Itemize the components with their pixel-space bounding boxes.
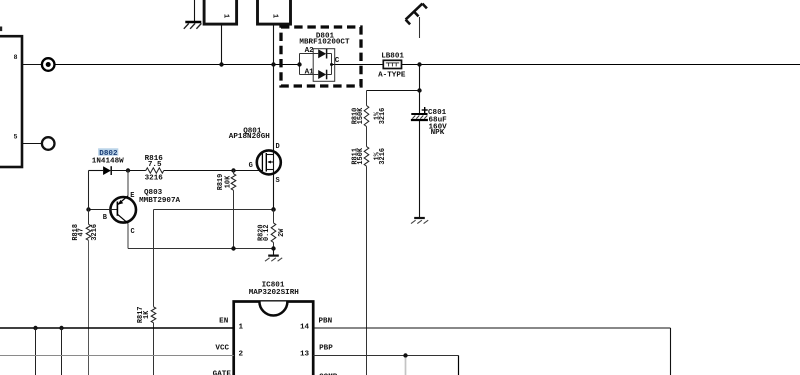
junction R820 bottom xyxy=(271,246,275,250)
wire gate node to Q801 gate xyxy=(234,170,263,172)
junction base node xyxy=(86,207,90,211)
left connector block (cut off at left edge) xyxy=(0,36,22,167)
gray stub below PBP branch xyxy=(405,358,407,375)
svg-text:D: D xyxy=(276,143,280,151)
svg-text:EN: EN xyxy=(219,318,229,326)
ground under C801 xyxy=(414,217,425,219)
cathode join xyxy=(331,54,333,75)
svg-text:PBP: PBP xyxy=(319,345,333,353)
wire box1 to bus xyxy=(221,24,223,64)
svg-text:1: 1 xyxy=(221,14,229,19)
svg-text:A1: A1 xyxy=(305,68,315,76)
svg-text:1: 1 xyxy=(239,323,244,331)
node A1/A2 junction on bus xyxy=(297,62,301,66)
connector pad pin 8 (ring with dot) xyxy=(42,58,55,71)
junction PBP branch xyxy=(403,353,407,357)
junction D802/R816/Q803e xyxy=(126,168,130,172)
collector bottom wire xyxy=(128,248,274,250)
svg-text:NPK: NPK xyxy=(431,129,445,137)
junction source/R820 xyxy=(271,207,275,211)
junction LB801 output xyxy=(417,62,421,66)
svg-text:1N4148W: 1N4148W xyxy=(92,157,124,165)
svg-text:VCC: VCC xyxy=(215,345,229,353)
Q803 base wire xyxy=(89,209,118,211)
wire bus to C801 xyxy=(419,91,421,114)
svg-text:MMBT2907A: MMBT2907A xyxy=(139,197,180,205)
junction Q801 source node xyxy=(271,207,275,211)
main bus wire (right section after D801) xyxy=(332,64,800,66)
connector pad pin 5 (open ring) xyxy=(42,137,55,150)
svg-text:AP18N20GH: AP18N20GH xyxy=(229,133,270,141)
svg-text:8: 8 xyxy=(14,54,18,61)
svg-text:150K: 150K xyxy=(357,147,365,164)
wire box2 down to Q801 drain (through bus) xyxy=(273,24,275,209)
junction branch xyxy=(417,88,421,92)
Q803 collector xyxy=(118,215,128,224)
ground (top left) xyxy=(194,0,196,21)
svg-text:5: 5 xyxy=(14,133,18,140)
svg-text:3216: 3216 xyxy=(91,224,99,241)
resistor R818 xyxy=(88,210,90,225)
Q803 emitter xyxy=(127,171,129,196)
wire C801 to ground xyxy=(419,121,421,217)
svg-text:3216: 3216 xyxy=(379,108,387,125)
PBP net wire xyxy=(313,355,458,357)
svg-text:1K: 1K xyxy=(143,310,151,319)
junction EN branch 2 xyxy=(59,326,63,330)
svg-text:3216: 3216 xyxy=(379,148,387,165)
svg-text:A-TYPE: A-TYPE xyxy=(378,71,406,79)
svg-text:A2: A2 xyxy=(305,47,315,55)
op-amp IC801 body xyxy=(234,302,314,375)
junction R819 bottom xyxy=(231,246,235,250)
resistor R820 xyxy=(273,210,275,223)
svg-text:C: C xyxy=(335,57,340,65)
VCC net wire (gray) xyxy=(0,355,234,357)
svg-text:150K: 150K xyxy=(357,107,365,124)
junction EN branch 1 xyxy=(33,326,37,330)
transistor Q801 (N-MOSFET) xyxy=(257,150,281,174)
wire pin 8 to connector xyxy=(22,64,42,66)
svg-text:14: 14 xyxy=(300,323,310,331)
wire stub from rotated ground xyxy=(419,17,421,38)
diode D801a (top) xyxy=(318,49,326,58)
svg-text:GATE: GATE xyxy=(213,370,232,375)
D801 dashed package box xyxy=(281,27,361,86)
svg-text:G: G xyxy=(249,162,253,170)
wire to ground xyxy=(273,249,275,256)
LB801 bead body xyxy=(383,60,401,68)
resistor R819 xyxy=(233,171,235,174)
resistor R811 xyxy=(364,147,369,167)
EN net wire xyxy=(0,327,234,329)
source/R820 mid wire xyxy=(154,209,274,211)
top connector box 1 xyxy=(204,0,237,24)
diode D801b (bottom) xyxy=(318,70,326,79)
wire diode to junction xyxy=(111,170,146,172)
top connector box 2 xyxy=(258,0,291,24)
svg-text:PBN: PBN xyxy=(319,318,333,326)
R810 divider chain vertical wire xyxy=(366,91,368,106)
svg-text:C: C xyxy=(131,228,135,236)
svg-text:MBRF10200CT: MBRF10200CT xyxy=(299,38,350,46)
svg-text:2W: 2W xyxy=(278,228,286,237)
C801 dielectric hatch xyxy=(412,116,415,119)
wire bus down to C801/R810 branch xyxy=(419,65,421,91)
resistor R817 xyxy=(151,307,156,323)
svg-text:E: E xyxy=(130,192,134,200)
ground (top right, rotated 45deg) xyxy=(406,4,423,20)
resistor R810 xyxy=(364,106,369,127)
junction box1/bus xyxy=(219,62,223,66)
main bus wire (left section, y=64) xyxy=(55,64,299,66)
D801 inner body box xyxy=(313,49,335,82)
diode D802 xyxy=(103,166,111,175)
wire mid corner down to R817 xyxy=(153,210,155,307)
D802 highlighted label xyxy=(98,148,118,155)
capacitor C801 plus sign xyxy=(422,109,428,111)
D801 anode bracket xyxy=(299,54,301,75)
capacitor C801 plates xyxy=(411,113,427,115)
svg-text:0.12: 0.12 xyxy=(263,224,271,241)
transistor Q803 (PNP) xyxy=(110,197,136,223)
svg-text:S: S xyxy=(276,177,280,185)
svg-text:Q803: Q803 xyxy=(144,189,163,197)
wire diode corner down to base node xyxy=(88,171,90,210)
junction gate node xyxy=(231,168,235,172)
svg-text:3216: 3216 xyxy=(145,175,164,183)
svg-text:47: 47 xyxy=(77,228,85,236)
svg-text:1: 1 xyxy=(271,14,279,19)
wire corner to diode D802 xyxy=(89,170,104,172)
ground under R820 xyxy=(268,255,279,257)
svg-text:7.5: 7.5 xyxy=(148,161,162,169)
wire branch to R810 xyxy=(367,90,420,92)
wire R816 to gate node xyxy=(164,170,234,172)
junction box2/bus xyxy=(271,62,275,66)
svg-text:10K: 10K xyxy=(224,175,232,188)
svg-text:MAP3202SIRH: MAP3202SIRH xyxy=(249,289,300,297)
svg-text:13: 13 xyxy=(300,351,310,359)
wire pin 5 to connector xyxy=(22,143,42,145)
svg-text:2: 2 xyxy=(239,351,244,359)
PBN net wire xyxy=(313,327,670,329)
